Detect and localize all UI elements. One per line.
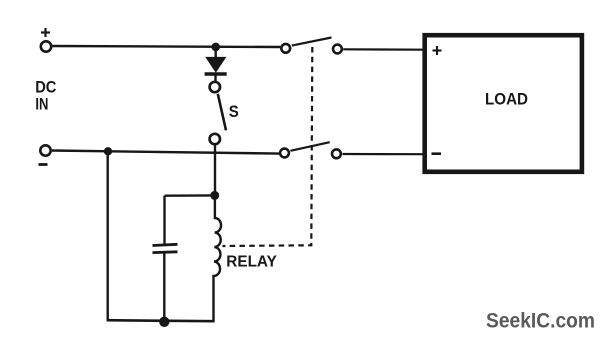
wire top rail <box>53 46 281 47</box>
relay contact K1a left terminal <box>281 44 290 53</box>
label − (DC input negative) <box>39 163 48 166</box>
wire bottom return <box>107 320 215 321</box>
svg-text:IN: IN <box>35 95 48 113</box>
relay coil K1 <box>213 196 221 322</box>
relay contact K1a right terminal <box>333 45 342 54</box>
wire capacitor top branch <box>165 194 216 197</box>
capacitor C1 <box>153 196 178 321</box>
svg-text:LOAD: LOAD <box>485 90 528 109</box>
wire switch S to relay node <box>214 145 216 196</box>
svg-text:RELAY: RELAY <box>226 253 277 270</box>
relay contact K1a blade <box>292 38 332 46</box>
label + (DC input positive) <box>41 28 50 37</box>
load box <box>425 35 582 172</box>
wire contact K1a to load <box>343 48 425 51</box>
relay contact K1b blade <box>290 142 329 151</box>
relay contact K1b right terminal <box>332 149 341 158</box>
label − (load negative terminal) <box>432 152 442 155</box>
label DC IN <box>35 79 56 114</box>
wire bottom rail <box>52 151 280 154</box>
switch S bottom contact <box>210 134 220 144</box>
svg-text:DC: DC <box>35 79 56 97</box>
node B (bottom rail junction) <box>104 147 112 155</box>
svg-text:SeekIC.com: SeekIC.com <box>486 309 595 333</box>
wire left branch down <box>106 151 108 320</box>
relay contact K1b left terminal <box>280 149 289 158</box>
terminal T2 DC − input <box>40 145 50 155</box>
svg-text:S: S <box>229 102 239 121</box>
node D (capacitor bottom junction) <box>159 317 169 327</box>
switch S top contact <box>210 82 220 92</box>
wire contact K1b to load <box>342 153 425 155</box>
switch S blade <box>218 94 226 131</box>
terminal T1 DC + input <box>41 41 51 51</box>
node A (diode tap junction) <box>211 43 220 52</box>
label + (load positive terminal) <box>433 46 442 55</box>
mechanical linkage dashed line <box>223 47 313 246</box>
node C (relay top junction) <box>210 191 219 200</box>
diode D1 <box>205 47 227 81</box>
